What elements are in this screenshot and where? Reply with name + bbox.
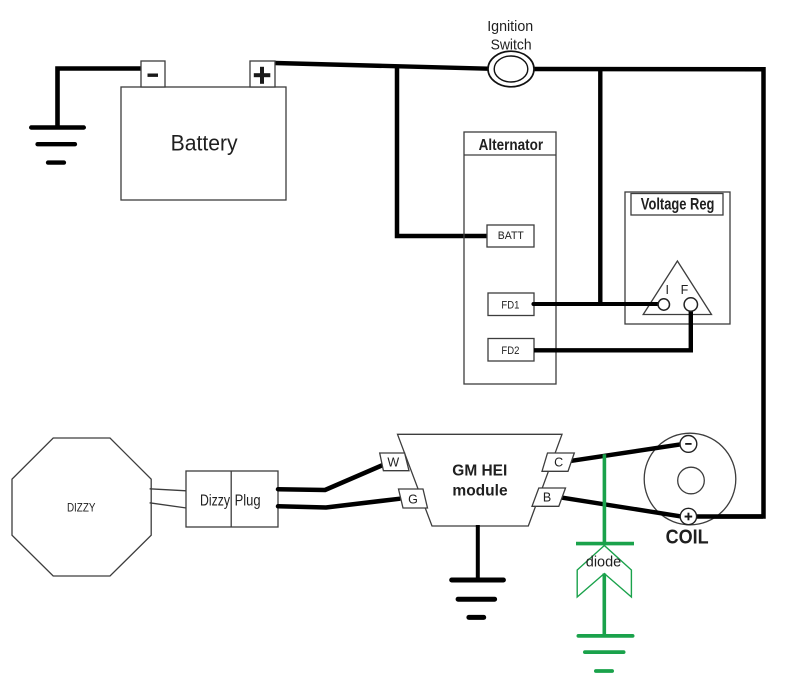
- alternator box: [464, 132, 556, 384]
- wire GM HEI ground: [476, 525, 480, 580]
- wire battery positive to ignition switch: [275, 63, 488, 69]
- svg-text:COIL: COIL: [666, 526, 709, 549]
- GM HEI terminal C: [542, 453, 574, 471]
- wire FD2 to regulator F: [534, 308, 691, 350]
- alternator FD2 terminal: [488, 339, 534, 362]
- wire FD1 to regulator I: [534, 302, 661, 306]
- GM HEI module trapezoid: [398, 434, 563, 526]
- wire B to coil plus: [560, 497, 681, 516]
- dizzy to plug link lines: [150, 489, 187, 508]
- svg-text:W: W: [387, 456, 399, 470]
- svg-text:Voltage Reg: Voltage Reg: [641, 195, 715, 213]
- dizzy plug: [186, 471, 278, 527]
- svg-text:GM HEI: GM HEI: [452, 463, 507, 480]
- svg-text:diode: diode: [586, 553, 622, 570]
- svg-text:Battery: Battery: [171, 131, 238, 156]
- ground (GM HEI): [452, 580, 504, 617]
- wire C to coil minus: [569, 444, 681, 461]
- wire ignition switch to right rail and coil plus: [534, 69, 764, 517]
- regulator I pin: [658, 283, 669, 310]
- svg-text:F: F: [681, 283, 689, 297]
- regulator triangle: [643, 261, 711, 315]
- svg-text:Plug: Plug: [235, 493, 261, 510]
- coil minus terminal: [680, 436, 697, 453]
- alternator BATT terminal: [487, 225, 534, 247]
- coil plus terminal: [680, 508, 696, 524]
- alternator FD1 terminal: [488, 293, 534, 316]
- svg-text:Switch: Switch: [491, 38, 532, 54]
- wire plug to W: [278, 465, 384, 491]
- wire coil plus from right rail: [695, 514, 763, 519]
- wire branch to alternator BATT: [397, 65, 487, 237]
- wire plug to G: [278, 499, 399, 508]
- svg-text:module: module: [452, 483, 507, 500]
- GM HEI terminal W: [380, 453, 409, 471]
- regulator F pin: [681, 283, 698, 311]
- diode wire vertical lower: [602, 574, 606, 636]
- svg-text:Dizzy: Dizzy: [200, 493, 230, 510]
- wire branch down to FD1 line: [598, 69, 602, 304]
- svg-text:DIZZY: DIZZY: [67, 503, 96, 515]
- svg-text:I: I: [665, 283, 668, 297]
- ground (battery): [31, 128, 84, 163]
- svg-text:Alternator: Alternator: [479, 137, 544, 154]
- diode chevron outline: [577, 546, 631, 598]
- svg-text:B: B: [543, 490, 551, 504]
- coil outer circle: [644, 433, 736, 525]
- battery negative terminal: [141, 61, 165, 87]
- svg-text:FD2: FD2: [501, 345, 519, 357]
- voltage regulator box: [625, 192, 730, 324]
- svg-text:Ignition: Ignition: [487, 19, 533, 35]
- coil inner circle: [678, 467, 705, 494]
- ignition switch: [487, 19, 534, 87]
- ground (diode, green): [578, 636, 632, 671]
- battery positive terminal: [250, 61, 275, 87]
- svg-text:FD1: FD1: [501, 299, 519, 311]
- svg-text:BATT: BATT: [498, 230, 524, 242]
- diode top bar: [576, 542, 634, 546]
- dizzy octagon: [12, 438, 151, 576]
- svg-text:G: G: [408, 493, 418, 507]
- diode wire vertical upper: [603, 454, 607, 543]
- GM HEI terminal B: [532, 488, 566, 506]
- svg-text:C: C: [554, 455, 563, 469]
- wire battery negative to ground: [58, 69, 142, 128]
- GM HEI terminal G: [399, 489, 428, 508]
- battery: [121, 87, 286, 200]
